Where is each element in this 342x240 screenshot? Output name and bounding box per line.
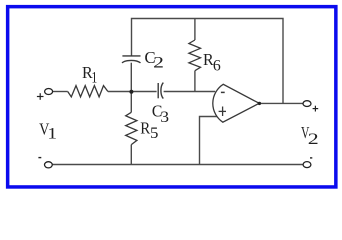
node A junction dot [129,90,133,94]
resistor R6 [189,40,201,71]
polarity - at V2 [310,157,312,159]
terminal: V2 + [303,101,311,107]
op-amp output junction dot [258,102,261,105]
blue page border [8,7,336,187]
wire: C2 to node A [130,63,132,92]
wire: top rail to R6 [194,19,196,41]
polarity - at V1 [38,157,41,159]
svg-text:6: 6 [213,58,221,75]
polarity + at V1 [37,93,44,100]
top rail wire [132,19,284,104]
polarity + at V2 [313,106,319,112]
wire: C3 to op-amp inverting input [164,91,216,93]
wire: R5 to bottom rail [130,145,132,165]
wire: R1 to node A [108,91,131,93]
wire: non-inverting input to bottom rail [200,117,218,165]
capacitor C3 [158,83,163,99]
terminal: V1 - [45,162,53,168]
svg-text:2: 2 [153,54,164,71]
svg-text:5: 5 [150,125,158,142]
wire: R6 to inverting input wire [194,71,196,92]
bottom rail wire [53,164,304,166]
svg-text:1: 1 [91,70,97,87]
capacitor C2 [122,56,141,63]
terminal: V1 + [45,89,53,95]
wire: node A to C3 [131,91,156,93]
svg-text:1: 1 [47,126,57,143]
wire: input + terminal to R1 [53,91,68,93]
wire: op-amp output to + terminal [259,102,303,104]
terminal: V2 - [303,162,311,168]
resistor R1 [68,86,108,97]
op-amp U1 [213,84,259,122]
svg-text:3: 3 [160,109,169,126]
wire: node A to R5 [130,92,132,113]
svg-text:2: 2 [308,131,319,148]
resistor R5 [126,112,137,144]
